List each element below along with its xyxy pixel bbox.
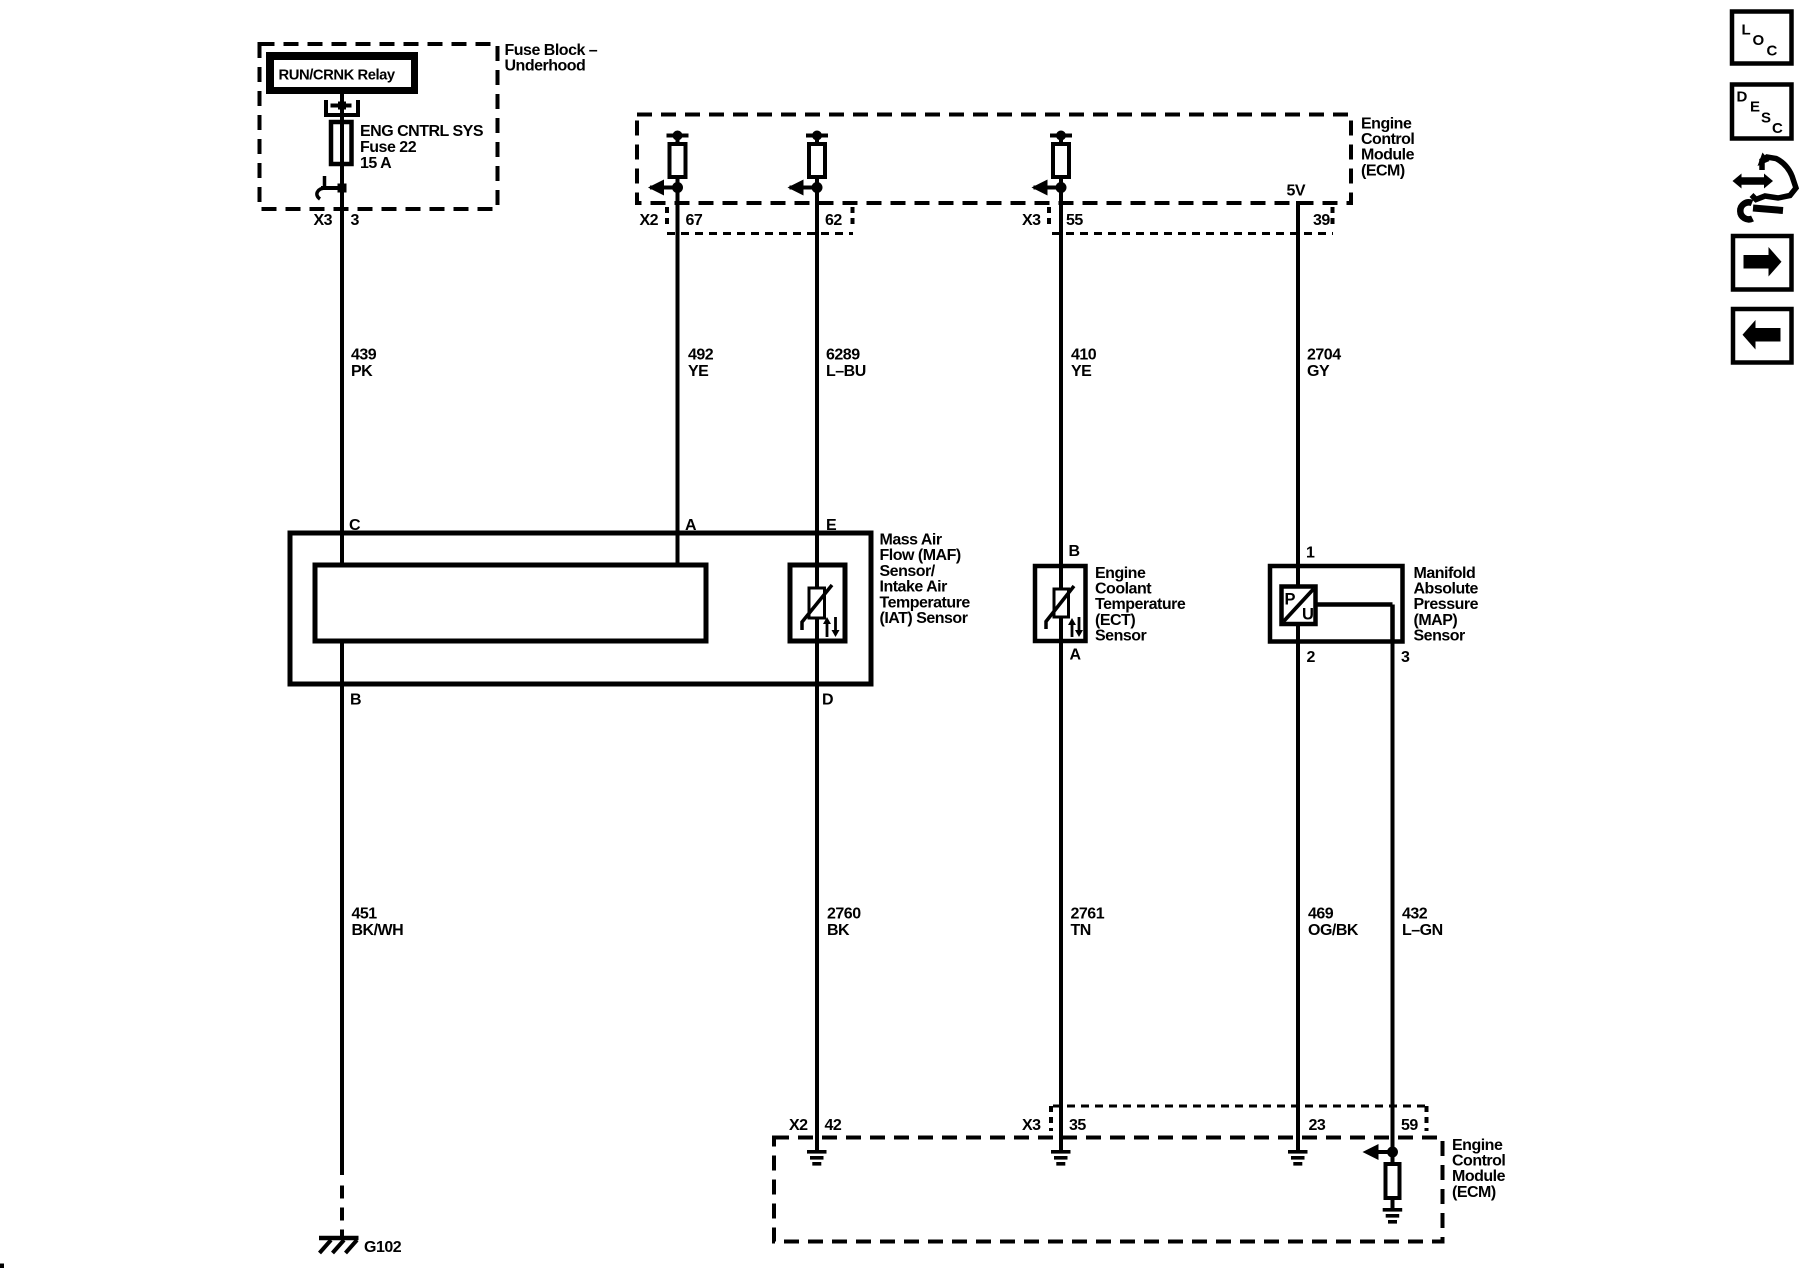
svg-text:451: 451: [352, 906, 378, 923]
svg-text:Control: Control: [1452, 1153, 1505, 1170]
wire label 2761 TN: [1071, 906, 1105, 940]
wire 2704 GY pin39 to MAP 1: [1296, 201, 1300, 566]
MAP internal wire cell to pin 3: [1316, 605, 1393, 642]
svg-text:(ECM): (ECM): [1452, 1184, 1496, 1201]
fuse F22 ENG CNTRL SYS 15A: [331, 122, 352, 164]
connector label X3 pin 3: [314, 212, 360, 229]
IAT bidirectional arrows: [823, 617, 840, 637]
ground G102: [319, 1238, 359, 1253]
connector band X3 (55,39): [1049, 207, 1333, 234]
label ENG CNTRL SYS Fuse 22 15 A: [360, 123, 484, 172]
wire label 492 YE: [688, 347, 714, 381]
svg-text:X3: X3: [1022, 212, 1041, 229]
svg-text:5V: 5V: [1287, 183, 1306, 200]
svg-text:BK: BK: [827, 922, 850, 939]
wire label 451 BK/WH: [352, 906, 404, 940]
ECM top dashed box: [637, 115, 1351, 204]
wire 2761 TN ECT A to ECM 35: [1059, 684, 1063, 1150]
svg-text:(IAT) Sensor: (IAT) Sensor: [880, 610, 968, 627]
svg-text:Control: Control: [1361, 131, 1414, 148]
svg-text:Sensor: Sensor: [1095, 627, 1147, 644]
svg-text:X2: X2: [789, 1117, 808, 1134]
fuse clip holder: [326, 100, 358, 115]
svg-text:C: C: [1772, 120, 1783, 137]
page speck bottom-left: [0, 1264, 4, 1269]
wire 469 OG/BK MAP 2 to ECM 23: [1296, 684, 1300, 1150]
svg-text:3: 3: [351, 212, 360, 229]
nav icon next page (right arrow): [1733, 236, 1792, 290]
connector terminal hook at fuse block exit: [317, 176, 347, 199]
svg-text:Engine: Engine: [1452, 1137, 1503, 1154]
svg-text:2761: 2761: [1071, 906, 1105, 923]
bottom connector labels X3 35 23 59: [1022, 1117, 1418, 1134]
svg-text:D: D: [1737, 89, 1748, 106]
svg-text:Engine: Engine: [1095, 565, 1146, 582]
svg-text:Coolant: Coolant: [1095, 581, 1152, 598]
svg-text:S: S: [1761, 110, 1771, 127]
svg-text:6289: 6289: [826, 347, 860, 364]
svg-text:X3: X3: [1022, 1117, 1041, 1134]
svg-text:O: O: [1753, 32, 1765, 49]
svg-text:L–GN: L–GN: [1402, 922, 1443, 939]
svg-text:Flow (MAF): Flow (MAF): [880, 547, 961, 564]
MAP P/U transducer cell: [1282, 587, 1316, 625]
svg-text:Temperature: Temperature: [880, 594, 971, 611]
svg-text:35: 35: [1069, 1117, 1086, 1134]
wire label 2704 GY: [1307, 347, 1341, 381]
svg-text:410: 410: [1071, 347, 1097, 364]
svg-text:(MAP): (MAP): [1414, 612, 1458, 629]
svg-text:2760: 2760: [827, 906, 861, 923]
svg-text:Mass Air: Mass Air: [880, 532, 942, 549]
nav icon DESC: [1732, 85, 1792, 139]
wire 2760 BK MAF D to ECM 42: [815, 684, 819, 1150]
wire label 439 PK: [351, 347, 377, 381]
svg-text:G102: G102: [364, 1239, 402, 1256]
wire 410 YE pin55 to ECT B: [1059, 188, 1063, 567]
wire label 432 L-GN: [1402, 906, 1443, 940]
wire 6289 L-BU pin62 to MAF E: [815, 188, 819, 534]
svg-text:X3: X3: [314, 212, 333, 229]
MAP wire cell to pin 2: [1296, 624, 1300, 684]
wire from relay to X3-3: [340, 94, 344, 565]
ECM driver resistor at pin 67: [648, 131, 689, 196]
svg-text:Manifold: Manifold: [1414, 565, 1476, 582]
svg-text:RUN/CRNK Relay: RUN/CRNK Relay: [279, 68, 396, 84]
svg-text:Pressure: Pressure: [1414, 596, 1479, 613]
svg-text:42: 42: [825, 1117, 842, 1134]
ECT sensor box: [1035, 566, 1086, 641]
svg-text:L: L: [1742, 22, 1751, 39]
svg-text:67: 67: [686, 212, 703, 229]
svg-text:59: 59: [1401, 1117, 1418, 1134]
svg-text:62: 62: [825, 212, 842, 229]
wire label 410 YE: [1071, 347, 1097, 381]
label Mass Air Flow (MAF) Sensor/ Intake Air Temperature (IAT) Sensor: [880, 532, 971, 628]
svg-text:Intake Air: Intake Air: [880, 579, 948, 596]
wire 451 BK/WH MAF B to G102: [340, 641, 344, 1238]
label Engine Coolant Temperature (ECT) Sensor: [1095, 565, 1186, 644]
ECM driver resistor at pin 55: [1032, 131, 1073, 196]
svg-text:YE: YE: [688, 363, 709, 380]
ECM bottom connector band X3 (35,23,59): [1051, 1106, 1428, 1131]
svg-text:3: 3: [1401, 649, 1410, 666]
ground at ECM pin 35: [1051, 1131, 1071, 1166]
svg-text:432: 432: [1402, 906, 1428, 923]
wire label 2760 BK: [827, 906, 861, 940]
svg-text:469: 469: [1308, 906, 1334, 923]
svg-text:Engine: Engine: [1361, 116, 1412, 133]
svg-text:U: U: [1302, 606, 1313, 624]
label Engine Control Module (ECM) top: [1361, 116, 1415, 180]
label Manifold Absolute Pressure (MAP) Sensor: [1414, 565, 1479, 644]
IAT thermistor outer box: [790, 565, 845, 641]
nav icon previous page (left arrow): [1733, 309, 1792, 363]
MAF inner element box: [315, 565, 706, 641]
IAT thermistor element: [802, 585, 832, 630]
ECM driver resistor at pin 62: [788, 131, 829, 196]
connector labels X2 67 62: [640, 212, 843, 229]
svg-text:Module: Module: [1361, 147, 1415, 164]
ECT bidirectional arrows: [1068, 617, 1083, 637]
ground at ECM pin 23: [1288, 1131, 1308, 1166]
wire 432 L-GN MAP 3 to ECM 59: [1391, 642, 1395, 1153]
svg-text:(ECM): (ECM): [1361, 162, 1405, 179]
svg-text:Absolute: Absolute: [1414, 581, 1479, 598]
wire label 6289 L-BU: [826, 347, 866, 381]
svg-text:2: 2: [1307, 649, 1316, 666]
wire 492 YE pin67 to MAF A: [676, 188, 680, 566]
svg-text:BK/WH: BK/WH: [352, 922, 404, 939]
svg-text:39: 39: [1313, 212, 1330, 229]
svg-text:L–BU: L–BU: [826, 363, 866, 380]
svg-text:B: B: [1069, 543, 1080, 560]
svg-text:PK: PK: [351, 363, 373, 380]
svg-text:YE: YE: [1071, 363, 1092, 380]
svg-text:Underhood: Underhood: [505, 58, 586, 75]
MAP sensor box: [1270, 566, 1403, 642]
svg-text:439: 439: [351, 347, 377, 364]
svg-text:TN: TN: [1071, 922, 1091, 939]
svg-text:GY: GY: [1307, 363, 1330, 380]
ECT wire through box: [1059, 566, 1063, 684]
ground at ECM pin 42: [807, 1131, 827, 1166]
MAF pin letters C A E: [349, 517, 837, 534]
svg-text:492: 492: [688, 347, 714, 364]
svg-text:(ECT): (ECT): [1095, 612, 1135, 629]
ECT thermistor element: [1046, 586, 1074, 629]
connector labels X3 55 39: [1022, 212, 1330, 229]
svg-text:D: D: [822, 692, 833, 709]
bottom connector labels X2 42: [789, 1117, 842, 1134]
ECM pin 59 pull-down: arrow, resistor, ground: [1363, 1131, 1403, 1224]
svg-text:X2: X2: [640, 212, 659, 229]
relay K (RUN/CRNK Relay): [266, 52, 418, 94]
svg-text:15 A: 15 A: [360, 155, 392, 172]
MAF pin letters B D: [350, 692, 833, 709]
label Fuse Block - Underhood: [505, 42, 598, 75]
svg-text:1: 1: [1306, 545, 1315, 562]
svg-text:OG/BK: OG/BK: [1308, 922, 1359, 939]
ECM bottom dashed box: [774, 1138, 1443, 1242]
MAF/IAT sensor outer box: [290, 533, 871, 684]
svg-text:Fuse 22: Fuse 22: [360, 139, 417, 156]
nav icon shortcuts (arrow + wrench): [1733, 153, 1797, 220]
svg-text:A: A: [1070, 647, 1082, 664]
svg-text:23: 23: [1309, 1117, 1326, 1134]
svg-text:Temperature: Temperature: [1095, 596, 1186, 613]
wire label 469 OG/BK: [1308, 906, 1359, 940]
nav icon LOC: [1732, 12, 1792, 64]
svg-text:P: P: [1285, 591, 1296, 609]
svg-text:55: 55: [1066, 212, 1083, 229]
svg-text:2704: 2704: [1307, 347, 1341, 364]
svg-text:Fuse Block –: Fuse Block –: [505, 42, 598, 59]
label Engine Control Module (ECM) bottom: [1452, 1137, 1506, 1201]
fuse block underhood dashed box: [260, 44, 498, 209]
connector band X2 (67,62): [667, 207, 853, 234]
MAP wire pin1 to P/U cell: [1296, 566, 1300, 587]
svg-text:ENG CNTRL SYS: ENG CNTRL SYS: [360, 123, 484, 140]
svg-text:Sensor/: Sensor/: [880, 563, 936, 580]
svg-text:Module: Module: [1452, 1168, 1506, 1185]
svg-text:B: B: [350, 692, 361, 709]
svg-text:Sensor: Sensor: [1414, 627, 1466, 644]
svg-text:E: E: [1750, 99, 1760, 116]
IAT wire through box: [815, 533, 819, 684]
svg-text:C: C: [1767, 43, 1778, 60]
